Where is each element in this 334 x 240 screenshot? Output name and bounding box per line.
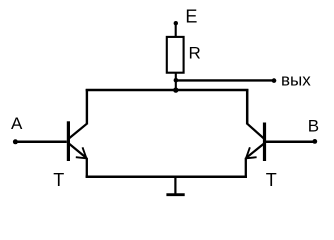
svg-text:R: R <box>189 44 201 63</box>
svg-text:A: A <box>11 114 23 133</box>
svg-text:вых: вых <box>281 70 311 89</box>
svg-text:T: T <box>266 170 277 190</box>
svg-text:T: T <box>53 170 64 190</box>
svg-text:E: E <box>185 7 197 27</box>
svg-text:B: B <box>308 116 319 135</box>
